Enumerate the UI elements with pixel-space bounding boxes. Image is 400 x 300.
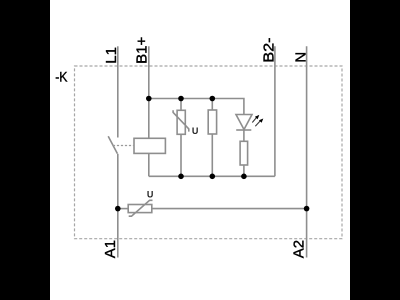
svg-text:A2: A2 <box>291 240 308 258</box>
svg-text:L1: L1 <box>103 47 120 64</box>
svg-text:B1+: B1+ <box>134 37 151 64</box>
svg-text:B2-: B2- <box>261 37 277 62</box>
svg-text:-K: -K <box>55 69 68 85</box>
svg-text:A1: A1 <box>102 240 119 258</box>
svg-text:U: U <box>192 126 199 136</box>
svg-text:U: U <box>147 190 154 200</box>
svg-text:N: N <box>292 52 309 63</box>
